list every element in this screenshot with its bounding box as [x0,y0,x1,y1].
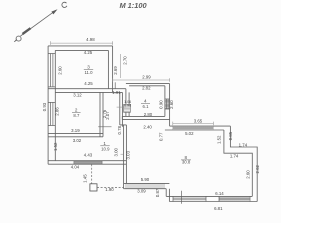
svg-text:0.93: 0.93 [42,102,47,111]
svg-text:6.14: 6.14 [215,191,224,196]
letter Ю (south) [14,36,21,42]
svg-text:0.78: 0.78 [117,125,122,134]
svg-text:2: 2 [75,108,78,113]
svg-text:4.25: 4.25 [84,50,93,55]
svg-text:0.85: 0.85 [228,131,233,140]
svg-text:1.91: 1.91 [112,90,121,95]
svg-text:11.0: 11.0 [84,70,93,75]
svg-text:5.02: 5.02 [185,131,194,136]
window W6 bottom midlines [219,196,250,201]
north arrow [21,10,57,36]
svg-text:4: 4 [144,99,147,104]
wall: room2 bottom [48,134,103,137]
svg-text:3.02: 3.02 [73,138,82,143]
svg-text:2.07: 2.07 [105,111,110,120]
wall: zigzag step outer [230,126,257,201]
dim line 3.65 [173,122,214,126]
window W7 hall bottom [74,161,102,165]
svg-text:0.90: 0.90 [158,100,163,109]
wall: room4 left [126,89,129,105]
wall: room4 top [126,84,170,86]
letter С (north) [62,2,67,7]
svg-text:3.09: 3.09 [137,188,146,193]
wall: connector right of bar [166,189,169,202]
wall: corridor right [120,92,123,126]
dashed planned partition vertical [91,164,93,184]
svg-text:4.04: 4.04 [71,165,80,170]
svg-text:4.25: 4.25 [84,81,93,86]
wall: room4 bottom [122,116,169,119]
svg-text:1.74: 1.74 [239,142,248,147]
svg-text:3.65: 3.65 [194,118,203,123]
svg-text:0.98: 0.98 [124,104,131,108]
svg-text:0.87: 0.87 [155,188,160,197]
stove square [90,184,97,191]
room labels [72,64,191,164]
wall: hall bottom [48,161,126,165]
dim line 2.99 [113,78,170,82]
svg-text:М 1:100: М 1:100 [119,1,147,10]
arrowhead [51,9,57,14]
wall: big room top window wall [165,126,231,130]
dim line 4.98 [51,41,113,45]
wall: big room left [120,125,127,189]
svg-text:5.90: 5.90 [141,177,150,182]
wall: left exterior inner face [54,50,56,160]
svg-text:6.81: 6.81 [214,206,223,211]
svg-text:2.60: 2.60 [57,66,62,75]
window W4 hatch top [173,126,214,130]
wall: room3 right outer [112,46,114,93]
wall: left exterior outer face [47,46,49,164]
svg-text:2.70: 2.70 [123,56,128,65]
svg-text:4.43: 4.43 [84,153,93,158]
svg-text:1.52: 1.52 [216,135,221,144]
svg-text:2.69: 2.69 [113,66,118,75]
window W3 room4 right [165,99,170,109]
svg-text:3: 3 [87,64,90,69]
svg-text:3.12: 3.12 [73,92,82,97]
dashed planned partition horizontal [97,187,124,189]
svg-text:4.98: 4.98 [86,37,95,42]
door threshold line corridor-hall [98,126,111,128]
svg-text:1.45: 1.45 [83,174,88,183]
svg-text:1: 1 [103,141,106,146]
wall: room3 right inner [107,50,109,88]
wall: room2 right [100,92,103,136]
wall: bottom band outer line [169,201,257,203]
svg-text:1.74: 1.74 [230,153,239,158]
svg-text:10.9: 10.9 [101,146,110,151]
svg-text:3.19: 3.19 [71,128,80,133]
svg-text:2.86: 2.86 [54,107,59,116]
wall: top exterior outer [48,45,113,47]
svg-text:2.62: 2.62 [255,164,260,173]
window W2 left wall room2 midlines [48,102,55,125]
tick hall right [121,153,124,155]
vent shaft hatch lines [124,106,131,112]
window bar lower-left band [124,183,170,188]
window bar hatch [126,183,164,188]
svg-text:2.99: 2.99 [142,74,151,79]
svg-text:8.7: 8.7 [73,113,80,118]
vent shaft hatched [124,104,131,112]
wall: bottom band inner line [166,195,252,197]
dimension texts [42,37,260,211]
wall: top exterior inner [55,49,108,51]
dim line small 1.06 [117,106,127,108]
dimension lines [51,41,214,154]
wall: room3 bottom lower line [55,91,122,93]
window W5 bottom midlines [173,196,206,201]
svg-text:2.60: 2.60 [245,170,250,179]
svg-text:3.03: 3.03 [125,150,130,159]
wall: zigzag step inner [224,130,252,196]
window W7 hatch [76,161,100,165]
wall: room4 left lower [126,112,129,116]
svg-text:2.60: 2.60 [169,100,174,109]
svg-text:2.82: 2.82 [142,86,151,91]
svg-text:1.52: 1.52 [53,142,58,151]
window W1 left wall room3 midlines [48,54,55,87]
dim line 2.69 vertical [119,54,121,78]
svg-text:2.40: 2.40 [143,125,152,130]
svg-text:6.1: 6.1 [143,104,150,109]
dim tick bottom [181,191,183,204]
wall: room4 right [165,84,170,127]
svg-text:30.8: 30.8 [182,159,191,164]
wall: room3 bottom upper line [48,88,126,90]
svg-text:3.00: 3.00 [113,147,118,156]
svg-text:1.90: 1.90 [105,187,114,192]
svg-text:2.80: 2.80 [144,112,153,117]
door tick room3 [114,82,116,88]
svg-text:0.77: 0.77 [158,132,163,141]
